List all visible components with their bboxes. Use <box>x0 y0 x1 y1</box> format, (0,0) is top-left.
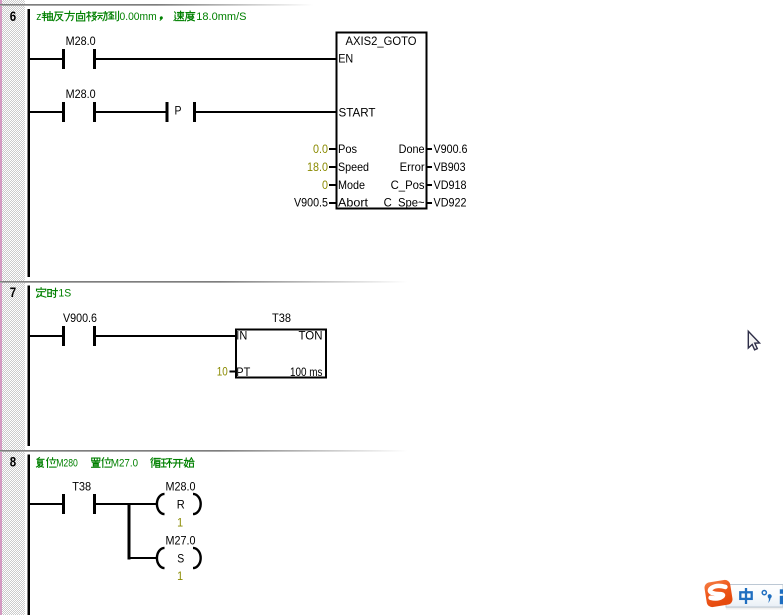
svg-text:AXIS2_GOTO: AXIS2_GOTO <box>346 34 417 48</box>
svg-text:VD918: VD918 <box>434 178 467 192</box>
svg-text:C_Spe~: C_Spe~ <box>384 196 425 210</box>
svg-text:VB903: VB903 <box>434 160 466 174</box>
svg-text:18.0mm/S: 18.0mm/S <box>196 11 246 23</box>
svg-text:T38: T38 <box>72 480 91 494</box>
svg-text:P: P <box>175 103 182 117</box>
svg-text:8: 8 <box>10 453 17 469</box>
svg-text:Speed: Speed <box>338 160 369 174</box>
svg-text:Mode: Mode <box>338 178 365 192</box>
svg-text:R: R <box>177 497 185 511</box>
svg-text:z: z <box>36 11 41 23</box>
svg-text:C_Pos: C_Pos <box>391 178 425 192</box>
svg-text:100 ms: 100 ms <box>290 365 323 379</box>
svg-text:EN: EN <box>338 51 353 65</box>
svg-text:M28.0: M28.0 <box>66 34 96 48</box>
svg-text:V900.5: V900.5 <box>294 196 328 210</box>
svg-text:M28.0: M28.0 <box>66 87 96 101</box>
svg-text:0: 0 <box>322 178 328 192</box>
svg-text:PT: PT <box>236 365 251 379</box>
svg-text:M280: M280 <box>56 457 78 469</box>
svg-text:1: 1 <box>177 515 183 529</box>
svg-text:V900.6: V900.6 <box>434 142 468 156</box>
svg-text:Error: Error <box>400 160 425 174</box>
svg-text:START: START <box>339 106 377 120</box>
svg-text:IN: IN <box>236 328 247 342</box>
svg-text:M27.0: M27.0 <box>166 534 196 548</box>
svg-text:TON: TON <box>299 328 323 342</box>
svg-text:18.0: 18.0 <box>307 160 328 174</box>
svg-text:VD922: VD922 <box>434 196 467 210</box>
svg-text:7: 7 <box>10 284 17 300</box>
svg-text:1S: 1S <box>58 288 71 300</box>
svg-text:T38: T38 <box>272 311 291 325</box>
svg-text:M28.0: M28.0 <box>166 480 196 494</box>
svg-text:M27.0: M27.0 <box>111 457 138 469</box>
svg-text:0.00mm: 0.00mm <box>120 11 157 23</box>
svg-text:Abort: Abort <box>338 196 369 210</box>
svg-text:0.0: 0.0 <box>313 142 328 156</box>
svg-text:Done: Done <box>399 142 425 156</box>
svg-text:6: 6 <box>10 8 17 24</box>
svg-text:Pos: Pos <box>338 142 357 156</box>
svg-text:10: 10 <box>217 365 228 379</box>
svg-text:1: 1 <box>177 569 183 583</box>
svg-text:S: S <box>177 551 184 565</box>
svg-text:V900.6: V900.6 <box>63 311 97 325</box>
